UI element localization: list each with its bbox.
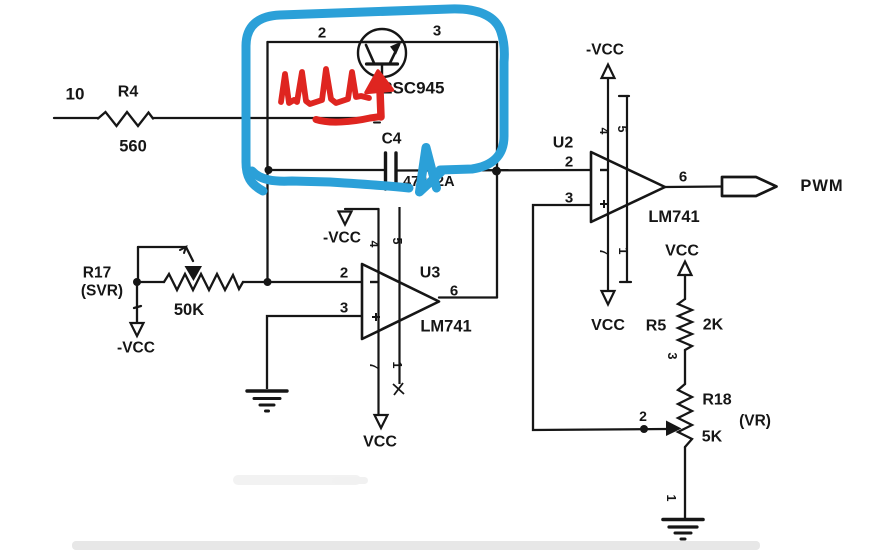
- annotation red underline: [316, 117, 381, 123]
- svg-text:50K: 50K: [174, 301, 204, 319]
- wire left bus vertical: [266, 42, 268, 282]
- svg-text:-VCC: -VCC: [117, 340, 155, 357]
- potentiometer R17 50K: [137, 247, 267, 290]
- U3 power pin 4 wire to -VCC: [345, 209, 379, 415]
- svg-text:C4: C4: [382, 131, 402, 148]
- wire right bus vertical: [496, 42, 498, 298]
- annotation red sawtooth waveform: [281, 69, 393, 122]
- annotation red arrow to transistor: [380, 90, 381, 117]
- x mark at U3 pin1 end: [393, 383, 404, 395]
- capacitor C4: [386, 153, 397, 189]
- svg-text:VCC: VCC: [591, 317, 625, 334]
- svg-text:LM741: LM741: [420, 318, 471, 336]
- op-amp U2 LM741: [591, 152, 665, 222]
- wire top rail left segment: [268, 41, 362, 43]
- ground symbol at bottom: [663, 520, 703, 540]
- -VCC arrow symbol at R17: [131, 323, 144, 336]
- VCC arrow symbol at U3: [375, 415, 388, 428]
- svg-text:4: 4: [597, 128, 611, 135]
- svg-text:4: 4: [367, 241, 381, 248]
- svg-text:VCC: VCC: [363, 434, 397, 451]
- annotation blue bottom stroke: [252, 171, 409, 188]
- wire U3 pin3 input: [267, 316, 362, 389]
- svg-text:R5: R5: [646, 318, 667, 335]
- PWM connector tag: [722, 177, 777, 196]
- transistor Q1 2SC945: [358, 29, 406, 123]
- wire C4 line right to U2 pin2: [397, 169, 591, 172]
- svg-text:3: 3: [340, 300, 348, 317]
- svg-text:560: 560: [119, 138, 147, 156]
- svg-text:(VR): (VR): [739, 413, 771, 430]
- svg-text:7: 7: [367, 363, 381, 370]
- wire R4 to transistor base node: [153, 117, 382, 119]
- resistor R5 2K: [678, 275, 692, 384]
- svg-text:U3: U3: [420, 265, 441, 282]
- junction dot pot R17 left: [133, 278, 141, 286]
- svg-text:2K: 2K: [703, 317, 724, 334]
- svg-text:1: 1: [616, 248, 630, 255]
- svg-text:3: 3: [433, 23, 441, 40]
- svg-text:2: 2: [340, 265, 348, 282]
- svg-text:3: 3: [565, 190, 573, 207]
- svg-text:-VCC: -VCC: [586, 42, 624, 59]
- VCC arrow symbol below U2: [602, 291, 615, 305]
- svg-text:6: 6: [679, 169, 687, 186]
- wire U2 output to PWM tag: [665, 185, 722, 188]
- svg-text:2: 2: [565, 154, 573, 171]
- potentiometer R18 5K: [678, 384, 692, 518]
- svg-text:5: 5: [390, 238, 404, 245]
- svg-text:3: 3: [665, 353, 679, 360]
- resistor R4 zigzag: [98, 112, 153, 126]
- op-amp U3 LM741: [362, 264, 439, 339]
- junction dot at R18 wiper wire: [640, 425, 648, 433]
- svg-text:U2: U2: [553, 135, 574, 152]
- svg-text:7: 7: [597, 249, 611, 256]
- wire C4 line left: [268, 169, 385, 171]
- svg-text:6: 6: [450, 283, 458, 300]
- wire top rail right segment: [403, 41, 497, 43]
- svg-text:R4: R4: [118, 84, 139, 101]
- wiper arrow of R17: [185, 266, 203, 281]
- scan smudge bottom: [72, 541, 760, 550]
- annotation blue loop around oscillator: [246, 9, 504, 192]
- junction dot pot R17 right: [264, 278, 272, 286]
- svg-text:VCC: VCC: [665, 243, 699, 260]
- U3 power pin 5 wire: [398, 207, 400, 384]
- VCC arrow symbol above R5: [679, 262, 692, 276]
- U2 power pin 5 wire: [619, 96, 631, 282]
- junction dot C4 left: [265, 166, 273, 174]
- ground symbol under U3: [247, 391, 287, 411]
- svg-text:R18: R18: [702, 392, 731, 409]
- svg-text:10: 10: [66, 85, 85, 104]
- svg-text:PWM: PWM: [800, 177, 843, 195]
- wire input from node 10 to R4: [54, 117, 98, 119]
- svg-text:R17: R17: [83, 265, 111, 282]
- junction dot C4 right: [492, 167, 501, 176]
- -VCC arrow symbol at U3: [339, 212, 352, 225]
- svg-text:-VCC: -VCC: [323, 230, 361, 247]
- wire U3 output to right bus: [439, 296, 497, 298]
- svg-text:1: 1: [664, 495, 678, 502]
- wire R17 left terminal to -VCC: [134, 282, 141, 322]
- wiper feedback wire of R17: [137, 247, 139, 282]
- svg-text:2: 2: [639, 408, 647, 424]
- svg-text:5K: 5K: [702, 429, 723, 446]
- scan smudge mid: [233, 475, 361, 485]
- annotation blue arrowhead: [420, 148, 442, 193]
- svg-text:2: 2: [318, 25, 326, 42]
- -VCC arrow symbol at U2: [602, 65, 615, 79]
- svg-text:LM741: LM741: [648, 208, 699, 226]
- svg-text:(SVR): (SVR): [81, 283, 123, 300]
- svg-text:5: 5: [615, 126, 629, 133]
- wiper arrow of R18: [666, 421, 682, 437]
- svg-text:1: 1: [390, 362, 404, 369]
- wire U3 pin2 input: [267, 281, 362, 283]
- wire U2 pin3 input from R18 wiper: [533, 205, 666, 430]
- U2 power pin 4 wire: [607, 78, 609, 291]
